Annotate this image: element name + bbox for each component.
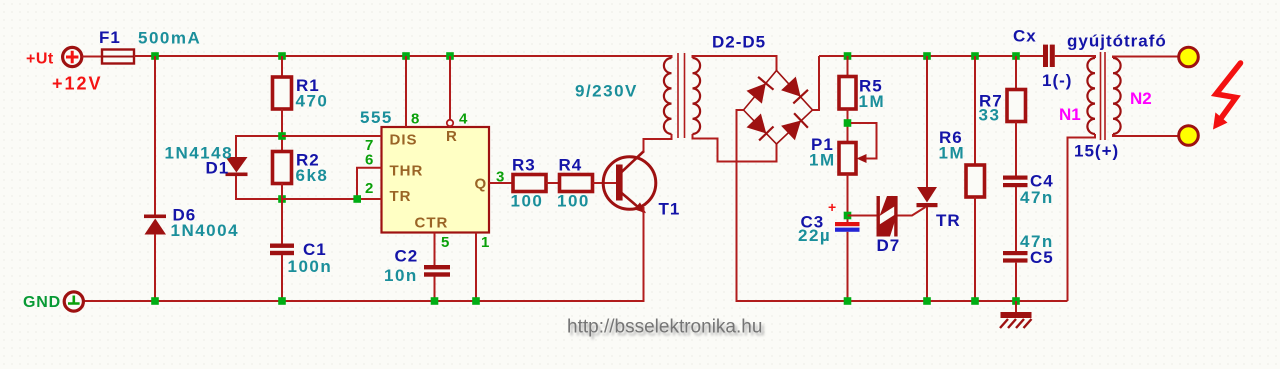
node junction C2 bottom — [431, 297, 439, 305]
wire bridge minus to ground rail — [737, 110, 744, 302]
wire pin7 DIS — [282, 135, 382, 137]
wire C4 to C5 — [1015, 187, 1017, 251]
svg-text:500mA: 500mA — [138, 29, 201, 48]
ignition transformer primary N1 — [1087, 58, 1095, 134]
wire emitter to ground rail — [643, 207, 645, 302]
wire pin3 Q out — [489, 182, 513, 184]
bridge rectifier D2-D5 — [744, 71, 813, 145]
svg-text:R: R — [446, 128, 458, 145]
wire D1 top branch — [236, 136, 282, 157]
wire terminal to fuse — [82, 56, 102, 58]
wire TR cathode — [926, 207, 928, 301]
svg-text:100: 100 — [557, 192, 590, 211]
svg-text:TR: TR — [390, 188, 412, 205]
wire D1 bottom branch — [236, 176, 282, 199]
svg-text:1: 1 — [481, 234, 489, 251]
watermark — [567, 317, 765, 341]
wire R7 top — [1015, 56, 1017, 90]
diode D6 1N4004 — [144, 215, 166, 235]
fuse F1 — [102, 50, 134, 64]
node junction pin4 — [446, 52, 454, 60]
node junction R6 bottom — [971, 297, 979, 305]
ignition transformer core — [1101, 52, 1106, 140]
svg-text:C2: C2 — [395, 247, 419, 266]
wire pin6 THR — [357, 168, 382, 199]
wire pin4 — [449, 56, 451, 120]
node junction TR bottom — [923, 297, 931, 305]
svg-text:470: 470 — [296, 92, 329, 111]
svg-text:555: 555 — [360, 108, 393, 127]
wire R7 to C4 — [1015, 122, 1017, 176]
svg-text:http://bsselektronika.hu: http://bsselektronika.hu — [567, 317, 762, 338]
node junction C3 bottom — [844, 297, 852, 305]
diac D7 — [877, 196, 898, 237]
wire R5 to P1 — [847, 109, 849, 143]
svg-text:D1: D1 — [206, 159, 230, 178]
svg-text:33: 33 — [979, 106, 1001, 125]
wire P1 to C3 — [847, 174, 849, 222]
transformer TR 9/230V primary — [664, 58, 672, 134]
capacitor C5 47n — [1003, 251, 1028, 263]
wire R2 to C1 — [281, 183, 283, 244]
wire TR anode — [926, 56, 928, 187]
svg-text:N2: N2 — [1130, 89, 1152, 108]
wire R6 bottom — [974, 197, 976, 301]
resistor R3 — [513, 175, 546, 192]
node junction R1/R2/D1 — [278, 132, 286, 140]
svg-text:1N4004: 1N4004 — [171, 221, 240, 240]
wire R1 to node — [281, 109, 283, 152]
transformer TR secondary — [693, 58, 701, 134]
node junction R5 top — [844, 52, 852, 60]
wire C5 bottom — [1015, 263, 1017, 301]
node junction C5 bottom — [1012, 297, 1020, 305]
svg-text:1M: 1M — [859, 92, 886, 111]
svg-text:Cx: Cx — [1013, 27, 1037, 46]
node junction GND/D6 — [151, 297, 159, 305]
svg-text:100n: 100n — [288, 257, 333, 276]
svg-text:47n: 47n — [1020, 188, 1054, 207]
capacitor C1 100n — [270, 244, 294, 256]
wire R3-R4 — [546, 182, 560, 184]
svg-text:F1: F1 — [99, 28, 121, 47]
capacitor C3 22u electrolytic — [828, 199, 860, 232]
wire primary top stub — [671, 56, 673, 58]
wire C3 bottom — [847, 232, 849, 301]
wire pin1 — [475, 233, 477, 302]
svg-text:gyújtótrafó: gyújtótrafó — [1067, 32, 1167, 51]
svg-text:T1: T1 — [659, 200, 681, 219]
wire R6 top — [974, 56, 976, 165]
node junction R7 top — [1012, 52, 1020, 60]
svg-text:1M: 1M — [809, 151, 836, 170]
node junction R6 top — [971, 52, 979, 60]
wire bottom rail left — [84, 300, 645, 302]
node junction R2 bottom — [278, 195, 286, 203]
op-amp/timer U1 555 body — [382, 127, 490, 233]
resistor R5 — [839, 77, 856, 110]
capacitor Cx — [1043, 45, 1055, 67]
wire R4 to base — [593, 182, 617, 184]
node junction pin1 bottom — [472, 297, 480, 305]
node junction R5/P1 — [844, 119, 852, 127]
wire pin8 — [405, 56, 407, 127]
wire secondary bottom to bridge — [693, 134, 777, 162]
thyristor TR — [917, 187, 938, 207]
resistor R2 — [273, 152, 292, 184]
resistor R4 — [560, 175, 593, 192]
svg-text:N1: N1 — [1059, 105, 1081, 124]
resistor R1 — [273, 77, 292, 109]
ground symbol — [1000, 301, 1032, 328]
svg-text:10n: 10n — [384, 266, 418, 285]
wire pin5 — [434, 233, 436, 266]
wire top rail right — [819, 55, 1043, 57]
node junction TR top — [923, 52, 931, 60]
svg-text:R3: R3 — [512, 156, 536, 175]
svg-text:+12V: +12V — [52, 74, 103, 94]
wire C1 bottom — [281, 255, 283, 301]
wire collector riser — [644, 139, 673, 152]
node junction R1 top — [278, 52, 286, 60]
svg-text:+: + — [828, 199, 836, 215]
wire to D7 — [848, 215, 878, 217]
svg-text:D2-D5: D2-D5 — [712, 33, 766, 52]
wire Cx to N1 — [1055, 55, 1096, 57]
resistor R7 — [1007, 90, 1026, 122]
terminal +Ut — [63, 47, 82, 66]
svg-text:2: 2 — [365, 180, 373, 197]
wire rail to R1 — [281, 56, 283, 77]
svg-text:15(+): 15(+) — [1074, 142, 1119, 161]
svg-text:4: 4 — [459, 111, 468, 128]
svg-text:22µ: 22µ — [798, 226, 831, 245]
potentiometer P1 — [839, 123, 877, 174]
svg-text:9/230V: 9/230V — [575, 82, 638, 101]
svg-text:6: 6 — [365, 152, 373, 169]
svg-text:6k8: 6k8 — [296, 166, 329, 185]
capacitor C2 10n — [424, 265, 450, 277]
wire D6 bottom — [154, 234, 156, 301]
node junction fuse/D6 — [151, 52, 159, 60]
wire N2 bottom to terminal — [1113, 134, 1178, 136]
node junction pin8 — [402, 52, 410, 60]
pin 4 inversion bubble — [447, 120, 453, 126]
node junction D7 branch — [844, 212, 852, 220]
wire pin2 TR — [282, 198, 382, 200]
diode D1 1N4148 — [226, 157, 248, 176]
capacitor C4 47n — [1003, 176, 1028, 188]
terminal GND — [64, 292, 83, 311]
wire primary bottom to collector — [671, 134, 673, 139]
wire top rail left — [134, 55, 673, 57]
transistor T1 — [603, 151, 656, 213]
svg-text:TR: TR — [936, 211, 961, 230]
node junction THR/TR — [353, 195, 361, 203]
svg-text:THR: THR — [390, 163, 424, 180]
svg-text:R4: R4 — [559, 156, 583, 175]
wire N1 top stub — [1094, 56, 1096, 58]
wire rail to R5 — [847, 56, 849, 77]
wire N2 top to terminal — [1113, 57, 1178, 59]
terminal spark bottom — [1179, 126, 1199, 146]
svg-text:+Ut: +Ut — [26, 51, 54, 68]
svg-text:Q: Q — [475, 176, 488, 193]
svg-text:5: 5 — [441, 234, 449, 251]
transformer core — [678, 53, 685, 138]
svg-text:3: 3 — [496, 169, 504, 186]
svg-text:CTR: CTR — [415, 215, 449, 232]
wire D7 to gate — [898, 207, 926, 216]
svg-text:C5: C5 — [1030, 248, 1054, 267]
wire N1 bottom to ground rail — [1068, 134, 1096, 301]
spark lightning bolt — [1213, 63, 1241, 130]
wire secondary top to bridge — [693, 56, 777, 71]
wire bottom rail right — [736, 300, 1068, 302]
svg-text:GND: GND — [23, 294, 61, 311]
ignition transformer secondary N2 — [1113, 58, 1121, 134]
wire D6 top — [154, 56, 156, 215]
wire bridge plus riser — [813, 56, 820, 110]
resistor R6 — [966, 165, 985, 197]
wire C2 bottom — [434, 277, 436, 302]
svg-text:1(-): 1(-) — [1042, 71, 1072, 90]
terminal spark top — [1179, 47, 1199, 67]
svg-text:D7: D7 — [877, 236, 901, 255]
node junction C1 bottom — [278, 297, 286, 305]
svg-text:100: 100 — [511, 192, 544, 211]
svg-text:8: 8 — [411, 111, 419, 128]
svg-text:DIS: DIS — [390, 132, 418, 149]
svg-text:1M: 1M — [939, 144, 966, 163]
